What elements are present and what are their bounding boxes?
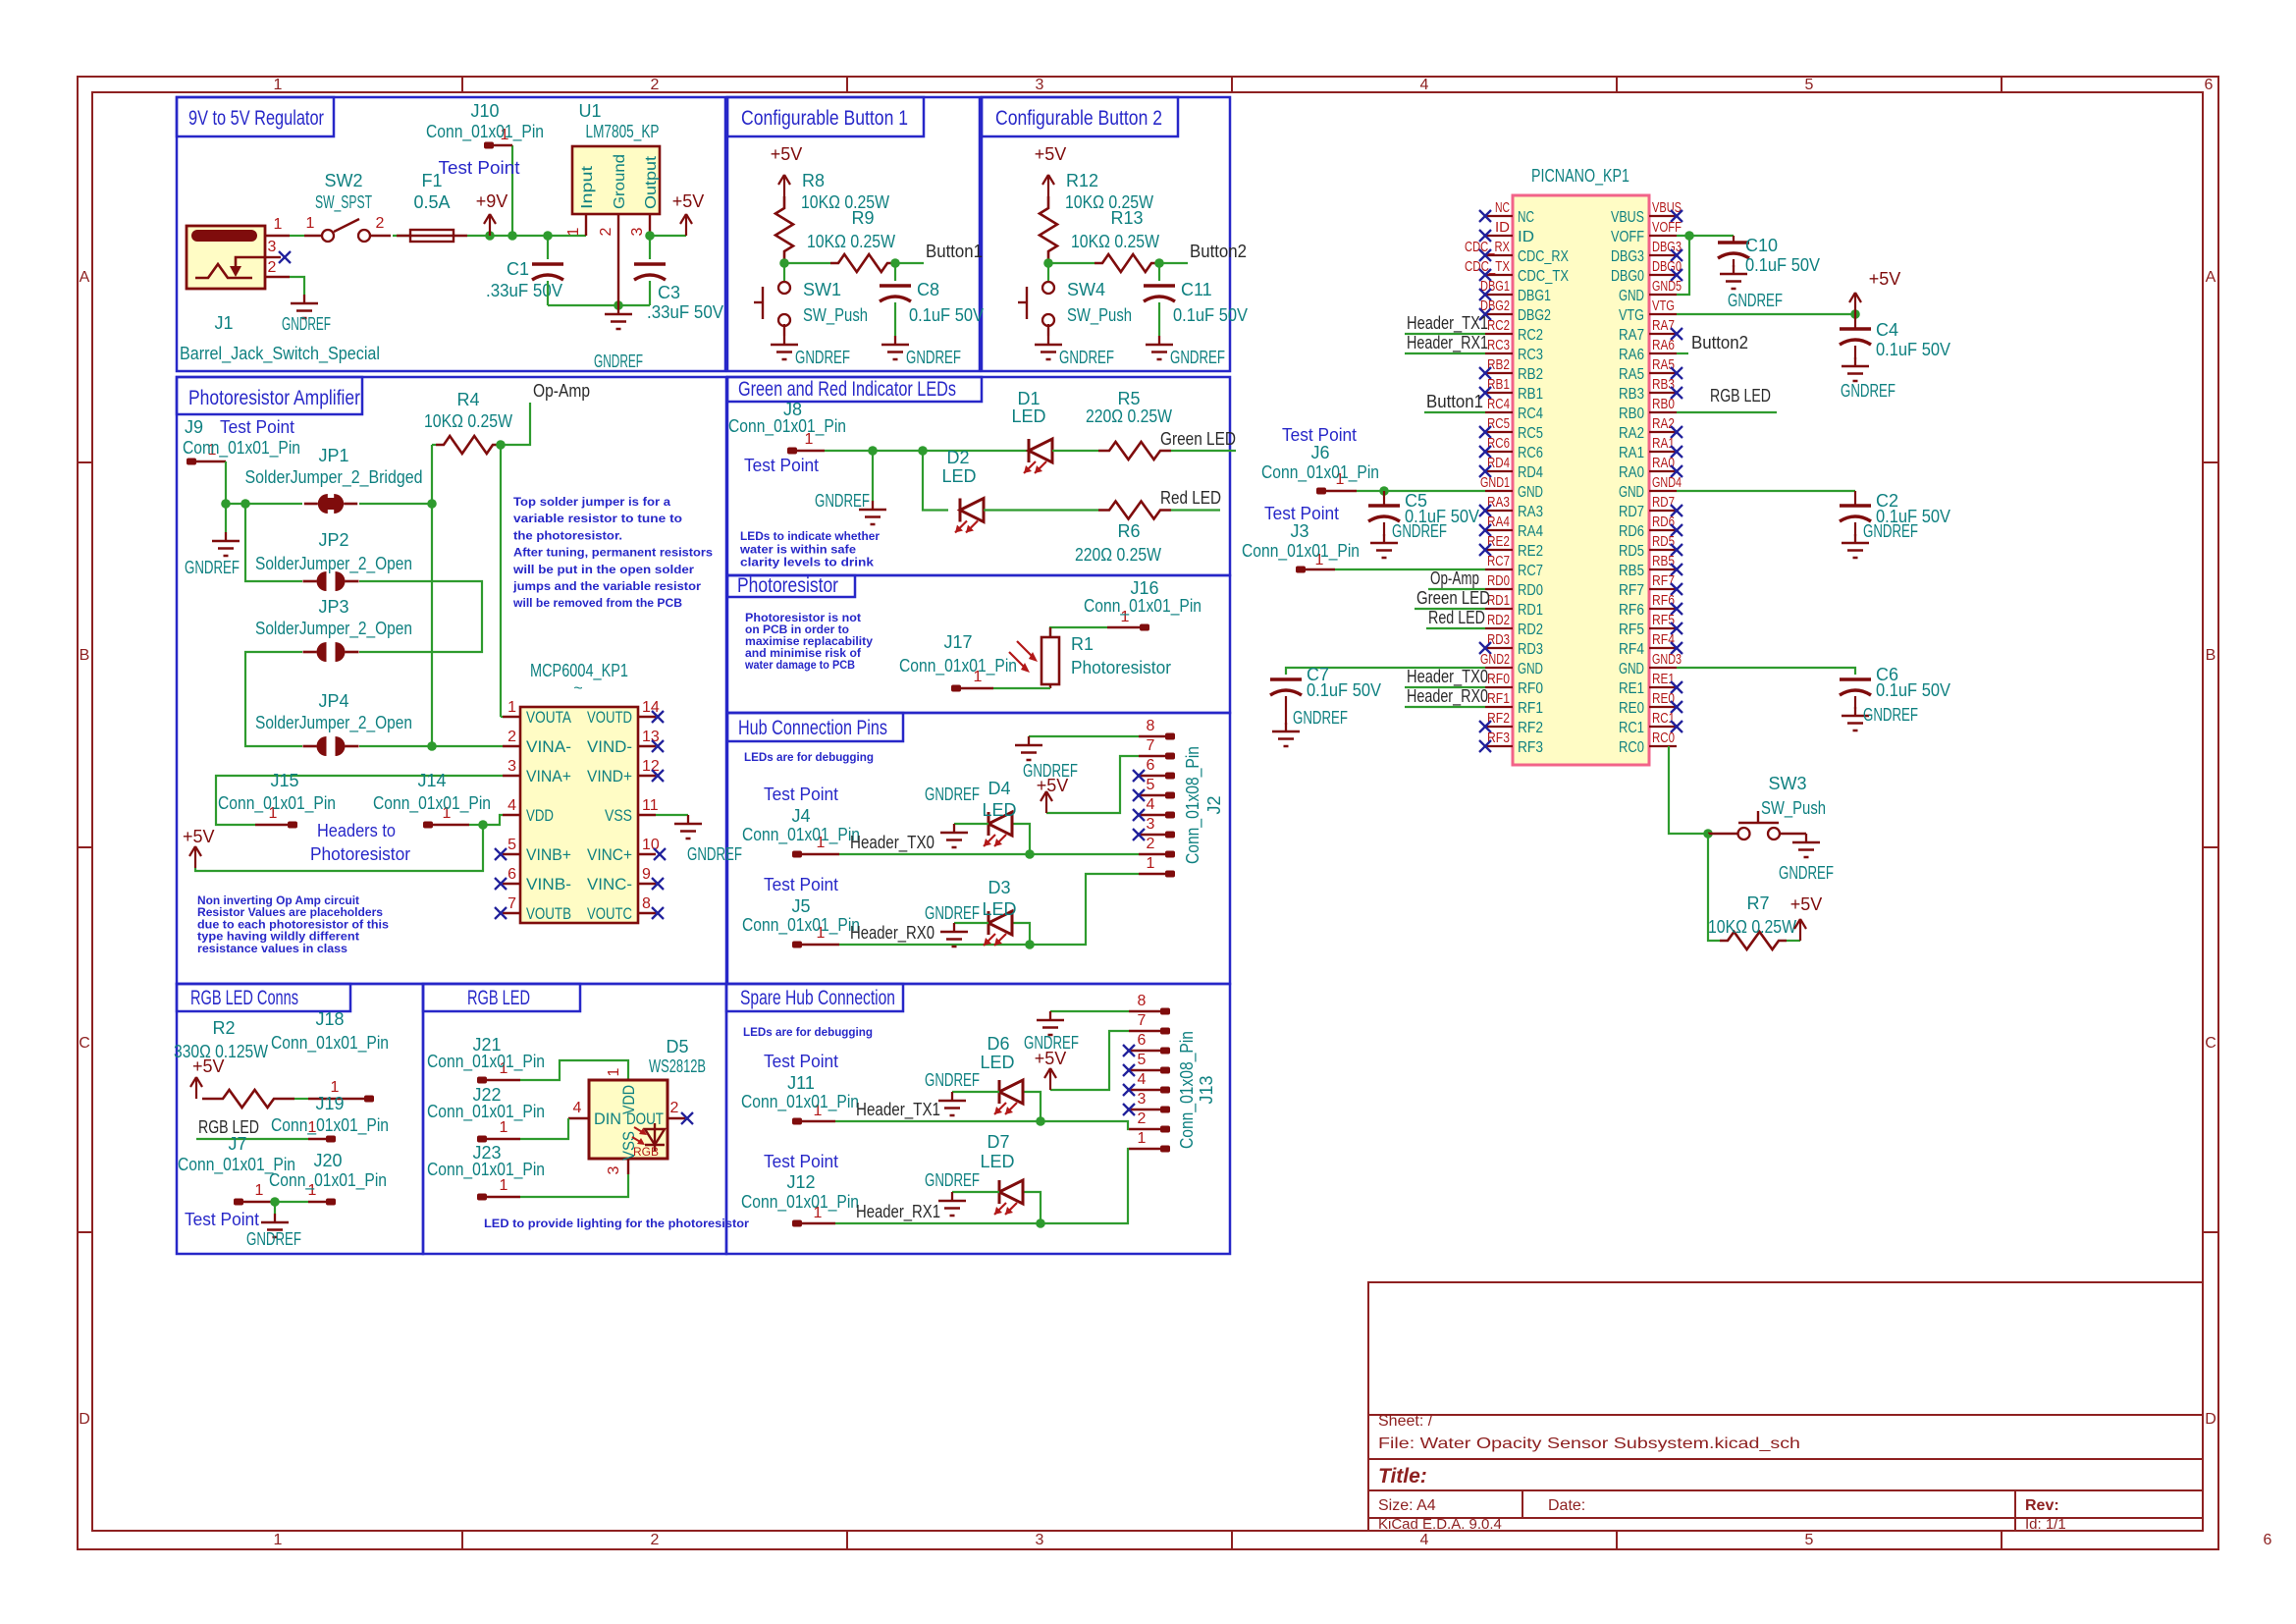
U3 right pin RD7 RD7 [1649,510,1677,512]
svg-text:RC7: RC7 [1487,553,1510,569]
title block row lines [1368,1414,2203,1416]
svg-text:1: 1 [255,1182,264,1199]
svg-text:8: 8 [642,895,651,912]
svg-text:variable resistor to tune to: variable resistor to tune to [513,512,682,525]
svg-text:VBUS: VBUS [1652,199,1682,216]
svg-text:RB3: RB3 [1619,386,1644,403]
connector J4 pin [792,851,802,858]
svg-text:RA2: RA2 [1619,425,1644,442]
resistor R8 [775,196,793,263]
U2 pin 6 VINB- [503,883,520,885]
wire node to ground [225,504,227,532]
svg-text:GNDREF: GNDREF [185,558,240,577]
wire F1 to U1 input [467,235,586,237]
U3 right pin RD6 RD6 [1649,529,1677,531]
junction JP4 VINA- node [427,741,437,751]
svg-text:J14: J14 [417,771,446,790]
wire gnd tap down [872,451,874,501]
ground GNDREF at C10 [1733,265,1735,274]
svg-text:Date:: Date: [1548,1497,1585,1514]
svg-text:GND3: GND3 [1652,651,1682,668]
svg-text:RF5: RF5 [1652,612,1675,628]
connector J21 pin [477,1077,487,1084]
U3 right pin RF4 RF4 [1649,647,1677,649]
svg-text:RE1: RE1 [1652,671,1675,687]
wire D7 to junction [1023,1192,1041,1223]
svg-text:NC: NC [1518,209,1534,226]
svg-text:+5V: +5V [192,1056,225,1076]
U3 left pin GND1 GND [1485,490,1513,492]
U3 right pin GND3 GND [1649,667,1677,669]
svg-text:GND: GND [1619,661,1644,677]
svg-text:7: 7 [507,895,516,912]
svg-text:RD0: RD0 [1487,572,1510,589]
junction VDD node [478,820,488,830]
svg-text:Button2: Button2 [1190,242,1247,261]
U3 left pin RA4 RA4 [1485,529,1513,531]
LED D3 [988,911,990,935]
capacitor C8 [880,284,911,287]
svg-text:2: 2 [598,227,614,236]
connector J6 pin [1316,488,1326,495]
svg-text:DOUT: DOUT [626,1110,664,1128]
svg-text:2: 2 [651,77,660,93]
svg-text:VOUTA: VOUTA [526,708,572,727]
svg-text:R2: R2 [212,1018,235,1038]
svg-text:RF2: RF2 [1518,720,1543,736]
svg-text:RF7: RF7 [1652,572,1675,589]
U3 left pin NC NC [1485,215,1513,217]
connector J23 pin [477,1194,487,1201]
svg-text:R6: R6 [1117,521,1140,541]
wire RC0 to SW3 node [1676,745,1678,747]
svg-text:D4: D4 [988,779,1010,798]
svg-text:0.5A: 0.5A [413,192,450,212]
svg-text:DIN: DIN [594,1110,621,1128]
svg-text:J20: J20 [313,1151,342,1170]
wire R8 to R9 [784,262,830,264]
svg-text:C10: C10 [1745,236,1778,255]
capacitor C1 [532,262,563,265]
connector J19 pin [308,1138,327,1140]
svg-text:D5: D5 [666,1037,688,1056]
photoresistor R1 [1041,637,1059,684]
svg-text:RGB: RGB [633,1145,659,1159]
U3 left pin RD4 RD4 [1485,470,1513,472]
svg-text:RC4: RC4 [1487,396,1510,412]
svg-text:12: 12 [642,758,660,775]
capacitor C11 [1144,284,1175,287]
svg-text:6: 6 [1138,1032,1147,1049]
wire J23 to VSS [520,1174,628,1197]
svg-text:SW4: SW4 [1067,280,1105,299]
U3 left pin CDC_RX CDC_RX [1485,254,1513,256]
wire R6 to Red LED label [1171,509,1220,511]
U3 right pin RC0 RC0 [1649,745,1677,747]
junction under R8 [779,258,789,268]
svg-text:6: 6 [2264,1532,2272,1548]
svg-text:RE1: RE1 [1619,680,1644,697]
U3 left pin DBG2 DBG2 [1485,313,1513,315]
svg-text:SW3: SW3 [1768,774,1806,793]
U3 left pin RD0 RD0 [1485,588,1513,590]
LED D5 WS2812B body [589,1080,667,1159]
svg-text:File: Water Opacity Sensor Sub: File: Water Opacity Sensor Subsystem.kic… [1378,1435,1800,1452]
svg-text:RD6: RD6 [1619,523,1644,540]
svg-text:RF1: RF1 [1487,690,1510,707]
svg-text:J18: J18 [315,1009,344,1029]
wire GND4 to C2 [1677,490,1855,492]
svg-text:GND4: GND4 [1652,474,1682,491]
svg-text:Conn_01x01_Pin: Conn_01x01_Pin [183,438,300,459]
ground GNDREF at J8 net [872,501,874,510]
wire net Header_TX0 to U3 [1405,686,1485,688]
svg-text:4: 4 [1147,796,1155,813]
junction at J10 tap [507,231,517,241]
svg-text:the photoresistor.: the photoresistor. [513,528,622,542]
svg-text:D3: D3 [988,878,1010,897]
wire D4 to junction [1012,824,1030,854]
svg-text:D1: D1 [1017,389,1040,408]
svg-text:RD3: RD3 [1487,631,1510,648]
svg-text:RD5: RD5 [1652,533,1675,550]
wire R4 to Op-Amp label [501,403,530,445]
U3 right pin RA7 RA7 [1649,333,1677,335]
U3 right pin VTG VTG [1649,313,1677,315]
wire SW2 to F1 [393,235,410,237]
U3 right pin RA1 RA1 [1649,451,1677,453]
svg-text:VOFF: VOFF [1611,229,1644,245]
wire D4 to ground [954,823,988,825]
svg-text:due to each photoresistor of t: due to each photoresistor of this [197,919,389,931]
U3 left pin RF3 RF3 [1485,745,1513,747]
frame row ticks left [78,461,92,463]
svg-text:RF0: RF0 [1518,680,1543,697]
ground GNDREF under C8 [894,336,896,345]
U3 right pin RB3 RB3 [1649,392,1677,394]
svg-text:6: 6 [2205,77,2214,93]
svg-text:Test Point: Test Point [1282,425,1357,445]
svg-text:NC: NC [1495,199,1510,216]
ground GNDREF at J13 pin8 [1049,1011,1051,1020]
svg-text:R5: R5 [1117,389,1140,408]
svg-text:RA0: RA0 [1619,464,1644,481]
svg-text:3: 3 [629,227,646,236]
svg-text:RF3: RF3 [1518,739,1543,756]
junction at +9V tap [485,231,495,241]
capacitor C3 [634,262,666,265]
svg-text:Conn_01x01_Pin: Conn_01x01_Pin [742,825,860,845]
svg-text:Photoresistor Amplifier: Photoresistor Amplifier [188,387,360,409]
svg-text:GNDREF: GNDREF [1728,291,1783,310]
wire C1 bottom to ground rail [547,281,549,305]
svg-text:Headers to: Headers to [317,821,396,840]
U3 right pin RB5 RB5 [1649,568,1677,570]
svg-text:VTG: VTG [1619,307,1644,324]
svg-text:ID: ID [1495,219,1510,236]
svg-text:Rev:: Rev: [2025,1497,2059,1514]
ground GNDREF under U1 [617,305,619,314]
svg-text:Title:: Title: [1378,1465,1427,1488]
U2 pin 7 VOUTB [503,912,520,914]
junction R4 right [496,440,506,450]
wire J1 pin2 to ground [290,277,304,295]
svg-text:DBG2: DBG2 [1518,307,1551,324]
svg-text:3: 3 [1036,77,1044,93]
U3 left pin ID ID [1485,235,1513,237]
connector J5 pin [792,942,802,948]
svg-text:A: A [2206,269,2216,286]
svg-text:5: 5 [1147,777,1155,793]
svg-text:RC2: RC2 [1487,317,1510,334]
solder jumper JP4 open [317,736,327,756]
svg-text:RGB LED: RGB LED [467,987,530,1009]
svg-text:Conn_01x01_Pin: Conn_01x01_Pin [899,656,1017,677]
frame column ticks bottom [461,1531,463,1549]
svg-text:11: 11 [642,797,659,814]
svg-text:JP4: JP4 [318,691,348,711]
ground GNDREF at C6 [1854,707,1856,716]
svg-text:J10: J10 [470,101,499,121]
svg-text:Test Point: Test Point [185,1210,259,1229]
svg-text:JP2: JP2 [318,530,348,550]
svg-text:Ground: Ground [612,154,628,209]
U3 left pin RC7 RC7 [1485,568,1513,570]
connector J20 pin [308,1201,327,1203]
svg-text:SW_Push: SW_Push [803,305,868,326]
svg-text:5: 5 [1805,77,1814,93]
U2 pin 3 VINA+ [503,775,520,777]
wire node up to R4 [431,445,433,504]
U3 right pin RA5 RA5 [1649,372,1677,374]
svg-text:0.1uF 50V: 0.1uF 50V [1173,305,1248,325]
svg-text:RD4: RD4 [1518,464,1543,481]
U2 pin 8 VOUTC [638,912,656,914]
svg-text:J15: J15 [270,771,298,790]
svg-text:Green LED: Green LED [1416,588,1490,608]
svg-text:GND5: GND5 [1652,278,1682,295]
U3 left pin RA3 RA3 [1485,510,1513,512]
U3 right pin DBG0 DBG0 [1649,274,1677,276]
svg-text:RF5: RF5 [1619,622,1644,638]
connector J12 pin [792,1220,802,1227]
ground GNDREF at C5 [1383,534,1385,543]
svg-text:1: 1 [606,1067,622,1076]
svg-text:GNDREF: GNDREF [1059,348,1114,367]
svg-text:GNDREF: GNDREF [1863,705,1918,725]
svg-text:After tuning, permanent resist: After tuning, permanent resistors [513,546,713,560]
U3 right pin RE0 RE0 [1649,706,1677,708]
ground GNDREF at D3 [953,923,955,932]
wire net Button1 to U3 [1424,411,1485,413]
wire D3 to junction [1012,923,1030,945]
wire C10 top stub [1733,236,1735,243]
junction under R12 [1043,258,1053,268]
junction at C1 tap [543,231,553,241]
svg-text:J13: J13 [1197,1075,1216,1104]
svg-text:RF4: RF4 [1652,631,1675,648]
svg-text:GND: GND [1619,288,1644,304]
D5 internal LED glyph [645,1129,665,1145]
svg-text:LED: LED [980,1053,1014,1072]
svg-text:+5V: +5V [1035,144,1067,164]
U3 right pin RF5 RF5 [1649,627,1677,629]
svg-text:VOFF: VOFF [1652,219,1682,236]
svg-text:4: 4 [1138,1071,1147,1088]
svg-text:U1: U1 [578,101,601,121]
svg-text:4: 4 [1420,1532,1429,1548]
svg-text:RA3: RA3 [1518,504,1543,520]
svg-text:GND: GND [1518,484,1543,501]
svg-text:1: 1 [500,1177,508,1194]
svg-text:~: ~ [573,680,582,697]
wire GND3 to C6 [1677,668,1855,675]
svg-text:DBG0: DBG0 [1611,268,1644,285]
U3 right pin RB0 RB0 [1649,411,1677,413]
svg-text:Photoresistor: Photoresistor [1071,658,1171,677]
svg-text:GND: GND [1518,661,1543,677]
solder jumper JP2 open [317,571,327,591]
svg-text:Conn_01x01_Pin: Conn_01x01_Pin [271,1033,389,1054]
svg-text:C8: C8 [917,280,939,299]
connector J11 pin [792,1118,802,1125]
svg-text:GNDREF: GNDREF [1170,348,1225,367]
U3 left pin CDC_TX CDC_TX [1485,274,1513,276]
section box Photoresistor Amplifier [177,377,726,984]
svg-text:CDC_TX: CDC_TX [1518,268,1569,285]
wire net Op-Amp to U3 [1428,588,1485,590]
svg-text:MCP6004_KP1: MCP6004_KP1 [530,661,628,681]
svg-text:Test Point: Test Point [764,875,838,894]
svg-text:RC1: RC1 [1619,720,1644,736]
svg-text:WS2812B: WS2812B [649,1056,706,1076]
svg-text:Conn_01x08_Pin: Conn_01x08_Pin [1177,1031,1198,1149]
fuse F1 [410,230,454,242]
wire RGB LED label to J19 [196,1138,308,1140]
svg-text:Id: 1/1: Id: 1/1 [2025,1516,2066,1533]
svg-text:Green LED: Green LED [1160,429,1236,449]
svg-text:RB2: RB2 [1487,356,1510,373]
connector J14 pin [423,822,433,829]
ground GNDREF at J7 [274,1214,276,1222]
svg-text:B: B [80,647,90,664]
svg-text:RB1: RB1 [1487,376,1510,393]
svg-text:RA6: RA6 [1652,337,1675,353]
svg-text:D7: D7 [987,1132,1009,1152]
section box Configurable Button 2 [982,97,1230,371]
wire net Red LED to U3 [1426,627,1485,629]
capacitor C10 [1718,241,1749,244]
svg-text:RF3: RF3 [1487,730,1510,746]
svg-text:RF6: RF6 [1619,602,1644,619]
svg-text:RF7: RF7 [1619,582,1644,599]
wire C8 top [894,263,896,281]
svg-text:GNDREF: GNDREF [1779,863,1834,883]
svg-text:C1: C1 [507,259,529,279]
svg-text:VINA+: VINA+ [526,767,571,785]
svg-text:RD1: RD1 [1487,592,1510,609]
svg-text:2: 2 [651,1532,660,1548]
svg-text:R12: R12 [1066,171,1098,190]
wire net RGB LED at RB0 [1677,411,1777,413]
svg-text:3: 3 [1138,1091,1147,1108]
svg-text:+5V: +5V [1790,894,1823,914]
connector J18 pin [308,1098,365,1100]
svg-text:RD2: RD2 [1487,612,1510,628]
svg-text:LEDs are for debugging: LEDs are for debugging [744,750,874,764]
svg-text:3: 3 [1147,816,1155,833]
U2 pin 4 VDD [503,814,520,816]
U3 right pin VBUS VBUS [1649,215,1677,217]
U3 right pin GND4 GND [1649,490,1677,492]
svg-text:0.1uF 50V: 0.1uF 50V [1307,680,1381,700]
section box RGB LED Conns [177,984,423,1254]
svg-text:.33uF 50V: .33uF 50V [486,281,562,300]
svg-text:will be put in the open solder: will be put in the open solder [512,563,694,576]
svg-text:J11: J11 [787,1073,815,1093]
wire Header_RX0 J5 to J2 pin1 [839,874,1139,945]
svg-text:Input: Input [579,165,596,209]
svg-text:RA6: RA6 [1619,347,1644,363]
resistor R4 [436,436,501,454]
svg-text:5: 5 [507,837,516,853]
svg-text:Test Point: Test Point [764,1152,838,1171]
svg-text:LED to provide lighting for th: LED to provide lighting for the photores… [484,1217,749,1230]
svg-text:Op-Amp: Op-Amp [533,381,590,401]
connector J15 pin [255,824,291,826]
U1 pin 3 Output [649,214,651,236]
svg-text:RE0: RE0 [1652,690,1675,707]
wire J3 to RC7 [1335,568,1485,570]
svg-text:C: C [2205,1035,2216,1052]
connector J2 Conn_01x08_Pin [1139,735,1166,737]
svg-text:VSS: VSS [605,806,632,825]
capacitor C2 [1840,504,1871,507]
svg-text:RF6: RF6 [1652,592,1675,609]
U3 left pin GND2 GND [1485,667,1513,669]
svg-text:5: 5 [1805,1532,1814,1548]
svg-text:R7: R7 [1746,893,1769,913]
U3 left pin RC2 RC2 [1485,333,1513,335]
U2 pin 2 VINA- [503,745,520,747]
wire R12 to R13 [1048,262,1095,264]
svg-text:resistance values in class: resistance values in class [197,944,347,955]
svg-text:RA4: RA4 [1518,523,1543,540]
svg-text:Conn_01x01_Pin: Conn_01x01_Pin [427,1052,545,1072]
svg-text:Barrel_Jack_Switch_Special: Barrel_Jack_Switch_Special [180,344,380,364]
wire R2 to J18 [294,1098,308,1100]
junction C5 node [1379,486,1389,496]
svg-text:J3: J3 [1290,521,1308,541]
svg-text:3: 3 [268,239,277,255]
svg-text:Conn_01x01_Pin: Conn_01x01_Pin [269,1170,387,1191]
connector J16 pin [1107,626,1141,628]
svg-text:LED: LED [982,800,1016,820]
svg-text:J6: J6 [1310,443,1329,462]
wire J10 to main rail [511,145,513,236]
wire VTG to C4 node [1677,313,1855,315]
svg-text:+5V: +5V [183,827,215,846]
svg-text:Button2: Button2 [1691,333,1748,352]
svg-text:Conn_01x01_Pin: Conn_01x01_Pin [1084,596,1201,617]
svg-text:10KΩ 0.25W: 10KΩ 0.25W [801,192,889,212]
wire Header_TX0 J4 to J2 pin2 [839,853,1139,855]
svg-text:GND2: GND2 [1480,651,1510,668]
no-connect X on J1 pin 3 [279,251,291,263]
power symbol +5V hub [1045,791,1047,813]
junction D2 tap [918,446,928,456]
wire U1 output to +5V [650,235,686,237]
